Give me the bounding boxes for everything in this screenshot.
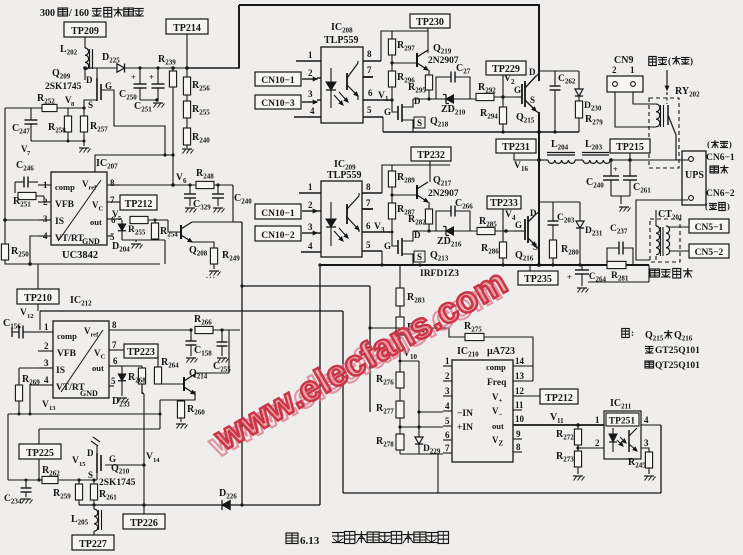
wire R282 to node: [427, 224, 430, 233]
test point TP223: [124, 344, 158, 358]
test point TP235: [518, 265, 558, 285]
svg-text:+: +: [613, 164, 618, 174]
optocoupler IC208 box: [321, 22, 363, 123]
svg-text:S: S: [88, 100, 93, 110]
IC210 left stubs: [443, 366, 452, 453]
IC207 pin labels left: [55, 182, 84, 244]
wire Vcc branch to IC207: [95, 155, 173, 172]
svg-text:8: 8: [110, 178, 115, 188]
wire R275 branch: [368, 326, 465, 337]
optocoupler IC211 box: [604, 398, 641, 459]
svg-text:3: 3: [381, 226, 385, 234]
svg-text:8: 8: [112, 320, 117, 330]
resistor R282: [408, 202, 433, 227]
wire CT to CN5-2: [669, 250, 689, 252]
wire TP231 drop: [514, 153, 539, 160]
wire pin13 stub: [513, 380, 533, 382]
IC212 pin labels right: [80, 326, 106, 398]
svg-text:5: 5: [367, 105, 372, 115]
svg-text:TP214: TP214: [173, 23, 201, 34]
svg-text:5: 5: [366, 240, 371, 250]
wire R287 down: [391, 219, 399, 246]
wire Q219 base: [390, 61, 417, 64]
svg-text:11: 11: [557, 417, 564, 425]
IC208 phototransistor: [347, 61, 358, 100]
bottom bus and R257: [31, 116, 108, 146]
wire Q210 gate: [105, 464, 144, 466]
transistor Q217 2N2907: [417, 175, 459, 202]
wire R295 to node: [427, 90, 430, 101]
wire pin3 left: [19, 367, 38, 369]
svg-text:1: 1: [385, 95, 389, 103]
wire VTRT down: [30, 236, 38, 264]
node V4 label: [505, 210, 516, 222]
svg-text:7: 7: [367, 65, 372, 75]
IC211 internal arrows: [617, 437, 626, 446]
wire TP225 down: [38, 459, 40, 480]
svg-text:comp: comp: [57, 331, 77, 341]
svg-text:16: 16: [521, 165, 529, 173]
svg-text:GND: GND: [80, 389, 98, 398]
wire opto1 pin5 drop: [382, 117, 384, 132]
svg-text:6: 6: [113, 356, 118, 366]
ground under C240a: [213, 208, 225, 213]
svg-text:+IN: +IN: [457, 423, 473, 433]
node V11 label: [550, 412, 564, 425]
CJK live wire label right: [707, 139, 732, 149]
wire R269 down: [18, 401, 20, 414]
svg-text:6.13: 6.13: [300, 535, 320, 547]
capacitor C262: [539, 71, 579, 90]
svg-text:VT/RT: VT/RT: [55, 234, 84, 244]
ground output caps: [611, 196, 631, 212]
wire R239 to V6: [171, 87, 174, 185]
IC209 pin stubs left: [299, 193, 321, 252]
resistor R250: [1, 244, 29, 260]
zener D204: [112, 220, 130, 254]
svg-text:4: 4: [644, 415, 649, 425]
svg-text:TP251: TP251: [609, 417, 636, 427]
svg-text:5: 5: [445, 416, 450, 426]
resistor R248: [196, 168, 233, 189]
CN6-1 output label: [706, 153, 735, 163]
wire to V10 node: [398, 335, 402, 372]
IRFD1Z3 text: [420, 269, 459, 279]
svg-text:CN10−2: CN10−2: [261, 231, 295, 241]
connector CN9 box: [607, 65, 643, 92]
wire UPS lower: [636, 200, 688, 260]
wire rail left drop: [39, 311, 41, 330]
node V3 label: [374, 222, 385, 234]
wire source bus: [5, 106, 86, 109]
svg-text:2: 2: [612, 65, 617, 75]
svg-text:4: 4: [310, 106, 315, 116]
wire R264 to base: [158, 383, 184, 385]
wire CT to CN5-1: [669, 226, 689, 228]
upper stage bottom rail: [383, 130, 579, 134]
connector CN10-3: [255, 95, 301, 109]
capacitor C255: [213, 328, 231, 373]
resistor R254: [151, 219, 178, 240]
wire Q219 collector join: [427, 50, 429, 53]
resistor R252: [37, 93, 57, 112]
resistor R260: [177, 401, 205, 422]
wire pin12 to TP212: [513, 395, 540, 397]
svg-text:): ): [690, 56, 693, 66]
svg-text:7: 7: [112, 340, 117, 350]
node V8 label: [65, 95, 75, 108]
svg-text:13: 13: [49, 405, 56, 412]
wire opto2 pin5 drop: [381, 251, 383, 265]
wire V14 column: [142, 394, 145, 507]
IC209 internal LED: [326, 202, 336, 246]
wire Q209 gate: [101, 90, 167, 157]
svg-text:15: 15: [79, 461, 86, 468]
capacitor C329: [184, 183, 211, 211]
resistor R259: [53, 480, 83, 505]
wire column x343: [342, 311, 344, 493]
wire TP233 drop: [502, 209, 504, 231]
IC208 pin numbers right: [367, 49, 373, 115]
svg-text:10: 10: [515, 414, 525, 424]
wire bottom cluster bus: [8, 478, 97, 481]
ground under C329: [185, 208, 197, 213]
IC211 internal LED: [609, 428, 617, 452]
svg-text:7: 7: [110, 195, 115, 205]
IC208 pin numbers left: [308, 50, 315, 116]
svg-text::: :: [631, 328, 634, 338]
V6 node and rail: [120, 173, 196, 187]
inductor L203: [575, 139, 610, 163]
svg-text:IS: IS: [56, 366, 65, 376]
wire TP209 to L202: [84, 37, 86, 48]
svg-text:D: D: [529, 67, 536, 77]
wire bottom loop: [400, 454, 443, 493]
resistor R280: [549, 225, 579, 265]
svg-text:CN5−1: CN5−1: [695, 223, 724, 233]
svg-text:CN6−2: CN6−2: [706, 189, 735, 199]
svg-text:1: 1: [308, 182, 313, 192]
svg-text:D: D: [530, 208, 537, 218]
svg-text:−IN: −IN: [457, 409, 473, 419]
svg-text:14: 14: [515, 356, 525, 366]
wire CN9 pin2 to coil: [615, 92, 656, 127]
wire TP223 to R264: [157, 351, 159, 367]
wire L205 to TP227: [93, 531, 95, 535]
wire column x370: [369, 286, 371, 412]
IC207 pin labels right: [82, 179, 104, 246]
current transformer CT201: [650, 209, 683, 262]
node V13 label: [42, 400, 56, 412]
svg-text:8: 8: [367, 49, 372, 59]
wire to Q208 base: [168, 220, 181, 232]
wire R276-R277: [399, 388, 401, 401]
wire VTRT bus: [8, 413, 160, 481]
svg-text:3: 3: [308, 222, 313, 232]
svg-text:7: 7: [445, 443, 450, 453]
node V14 label: [146, 452, 160, 464]
svg-text:V: V: [504, 74, 511, 84]
wire out net: [122, 219, 168, 221]
svg-text:1: 1: [630, 65, 635, 75]
resistor R268: [128, 366, 146, 394]
top bus wire: [239, 4, 540, 6]
test point TP212b: [540, 389, 578, 404]
wire R289-R287: [391, 187, 393, 203]
ground under caps: [140, 98, 165, 107]
svg-text:TP209: TP209: [71, 26, 99, 37]
wire V6 right column: [232, 185, 234, 222]
capacitor C261 electrolytic: [623, 160, 651, 196]
left box edge: [238, 5, 240, 68]
wire IS to left rail: [3, 218, 38, 222]
svg-text:TP215: TP215: [616, 142, 644, 153]
connector CN10-1a: [255, 72, 301, 86]
IC208 pin stubs right: [363, 61, 392, 117]
note line 1: [645, 330, 693, 343]
svg-text:1: 1: [595, 415, 600, 425]
wire right column: [660, 425, 662, 493]
svg-text:6: 6: [183, 177, 187, 185]
test point TP209: [64, 22, 106, 37]
svg-text:out: out: [90, 217, 102, 227]
svg-text:+: +: [567, 272, 572, 282]
IC210 uA723 box: [452, 346, 515, 462]
resistor R295: [408, 70, 433, 95]
svg-text:): ): [727, 201, 730, 211]
svg-text:G: G: [384, 241, 391, 251]
svg-text:D: D: [86, 75, 93, 85]
resistor R249: [210, 248, 240, 264]
svg-text:(: (: [707, 139, 710, 149]
wire Q214 collector: [195, 330, 229, 377]
optocoupler IC209 box: [321, 159, 362, 257]
IC210 right stubs: [513, 366, 604, 452]
arrow CN10-1b to pin2: [302, 209, 317, 212]
svg-text:D: D: [87, 448, 94, 458]
arrow CN10-3 to pin3: [302, 100, 317, 103]
svg-text:V: V: [505, 210, 512, 220]
svg-text:µA723: µA723: [487, 346, 515, 357]
CJK overcurrent label: [650, 268, 693, 278]
resistor R261: [90, 480, 117, 505]
wire IC211 pin3: [641, 448, 649, 452]
svg-text:TP212: TP212: [125, 199, 153, 210]
svg-text:TP223: TP223: [127, 347, 155, 358]
diode D225: [85, 52, 187, 73]
svg-text:4: 4: [44, 375, 49, 385]
IC210 left numbers: [445, 356, 450, 453]
relay coil: [656, 104, 664, 127]
capacitor C240a: [212, 183, 252, 206]
diode D230: [575, 71, 602, 113]
node V7 label: [21, 144, 31, 157]
svg-text:comp: comp: [55, 182, 75, 192]
arrow CN10-1a to pin2: [302, 77, 317, 80]
svg-text:QT25Q101: QT25Q101: [655, 361, 700, 371]
wire left rail to R250: [4, 220, 6, 244]
wire long feedback rail: [40, 310, 343, 312]
svg-text:TP230: TP230: [416, 17, 444, 28]
wire plus IN: [398, 425, 443, 428]
resistor R276: [376, 372, 404, 388]
wire branch to D229 column: [399, 360, 420, 438]
ground under C263: [577, 288, 589, 293]
svg-text:UPS: UPS: [685, 170, 704, 181]
svg-text:6: 6: [366, 221, 371, 231]
zener D229: [415, 437, 441, 456]
svg-text:VFB: VFB: [55, 200, 75, 210]
svg-text:VFB: VFB: [57, 349, 77, 359]
capacitor C263 electrolytic: [567, 265, 607, 286]
CT201 primary wires: [650, 210, 656, 260]
capacitor C246: [15, 160, 38, 193]
wire Q213 drain: [402, 231, 413, 241]
wire R272-R273: [576, 445, 579, 451]
test point TP232: [411, 147, 451, 161]
IGBT Q215: [514, 67, 536, 125]
watermark www.elecfans.com: [201, 267, 508, 465]
resistor R272: [556, 423, 582, 445]
svg-text:300: 300: [40, 8, 55, 19]
svg-text:14: 14: [153, 457, 160, 464]
wire TP210 drop: [37, 264, 39, 311]
svg-text:2: 2: [44, 341, 49, 351]
svg-text:G: G: [384, 107, 391, 117]
zener ZD210: [413, 95, 476, 117]
transistor Q209 2SK1745: [45, 68, 112, 110]
svg-text:CN5−2: CN5−2: [695, 248, 724, 258]
wire bottom rail d226: [79, 503, 320, 506]
svg-text:CN6−1: CN6−1: [706, 153, 735, 163]
IC209 phototransistor: [347, 193, 359, 232]
svg-text:2: 2: [445, 371, 450, 381]
ground under C158: [186, 358, 198, 363]
svg-text:+: +: [131, 72, 136, 82]
test point TP226: [123, 505, 165, 529]
ground under R273: [573, 476, 585, 481]
IC209 internal arrows: [334, 228, 348, 241]
svg-text:V: V: [20, 308, 27, 318]
svg-text:2SK1745: 2SK1745: [45, 82, 82, 92]
resistor R277: [376, 401, 404, 418]
inductor L204: [539, 139, 575, 163]
wire IC211 pin4: [641, 424, 661, 426]
zener ZD216: [413, 227, 477, 249]
svg-text:TP210: TP210: [24, 293, 52, 304]
right bus wire: [538, 5, 540, 81]
svg-text:S: S: [530, 95, 535, 105]
svg-text:V: V: [378, 91, 385, 101]
capacitor C156: [3, 318, 38, 339]
resistor R289: [388, 165, 415, 187]
wire Q215 drain to bus: [536, 4, 539, 76]
svg-text:12: 12: [515, 386, 525, 396]
resistor R284: [396, 317, 425, 335]
wire Q208 emitter: [192, 242, 214, 248]
svg-text:TP212: TP212: [545, 393, 573, 404]
connector CN9 label: [614, 55, 633, 66]
svg-text:(: (: [705, 201, 708, 211]
zener D233: [112, 366, 130, 409]
svg-text:9: 9: [516, 429, 521, 439]
IC207 pin stubs: [38, 185, 122, 236]
ground under R249: [206, 264, 221, 280]
resistor R239: [158, 54, 177, 87]
resistor R255b: [183, 95, 210, 118]
wire TP230 drop: [427, 28, 429, 50]
wire Q213 source: [402, 254, 413, 265]
test point TP227: [72, 535, 114, 550]
wire TP232 drop: [429, 161, 431, 182]
wire TP225 up: [39, 414, 160, 444]
wire R277-R278: [399, 418, 401, 434]
wire TP215 drop: [629, 153, 631, 160]
ground bus under D204 R254: [122, 240, 165, 249]
svg-text:7: 7: [366, 198, 371, 208]
CJK mains live label: [649, 56, 693, 66]
connector CN5-2: [689, 244, 729, 258]
test point TP231: [496, 139, 536, 153]
transistor Q210 mosfet: [87, 446, 136, 488]
arrow CN10-2 to pin3: [302, 231, 317, 234]
sense R281 C237 network: [607, 224, 633, 283]
svg-text:V: V: [146, 452, 153, 462]
wire R297-R296: [391, 55, 393, 71]
svg-text:CN10−3: CN10−3: [261, 99, 295, 109]
wire Q209 source: [84, 100, 97, 116]
svg-text:D: D: [414, 96, 421, 106]
note line 2: [645, 346, 700, 356]
svg-text:11: 11: [515, 400, 524, 410]
IC207 UC3842 box: [51, 158, 118, 261]
note line 3: [645, 361, 700, 371]
wire Q214 emitter: [159, 391, 196, 416]
svg-text:TP225: TP225: [26, 448, 54, 459]
svg-text:TP232: TP232: [417, 150, 445, 161]
ground under C255: [217, 358, 229, 363]
ground under R260: [176, 424, 188, 429]
diode D226: [219, 488, 237, 510]
figure caption: [286, 531, 449, 547]
capacitor C234: [4, 480, 32, 506]
wire Q210 source: [96, 473, 98, 480]
resistor R278: [376, 434, 404, 454]
sense loop wire: [588, 265, 649, 282]
svg-text:5: 5: [111, 376, 116, 386]
capacitor C251 electrolytic: [134, 66, 165, 113]
wire Q218 drain: [402, 99, 413, 107]
svg-text:4: 4: [445, 401, 450, 411]
ground under R257: [79, 148, 91, 153]
inductor L205: [71, 505, 102, 531]
svg-text:out: out: [492, 421, 504, 431]
svg-text:2: 2: [308, 68, 313, 78]
svg-text:13: 13: [515, 371, 525, 381]
node V12 label: [20, 308, 34, 320]
wire R268 to V14 column: [142, 384, 144, 394]
node V2 label: [504, 74, 515, 86]
IC212 pin stubs: [38, 330, 192, 386]
IC209 pin numbers left: [308, 182, 313, 251]
svg-text:. . .: . . .: [206, 272, 215, 280]
svg-text:+: +: [149, 72, 154, 82]
capacitor C250 electrolytic: [119, 68, 147, 102]
arrow mains drop: [665, 70, 668, 104]
svg-text:UC3842: UC3842: [62, 250, 98, 261]
resistor R251: [13, 192, 51, 208]
resistor R245: [628, 452, 653, 474]
